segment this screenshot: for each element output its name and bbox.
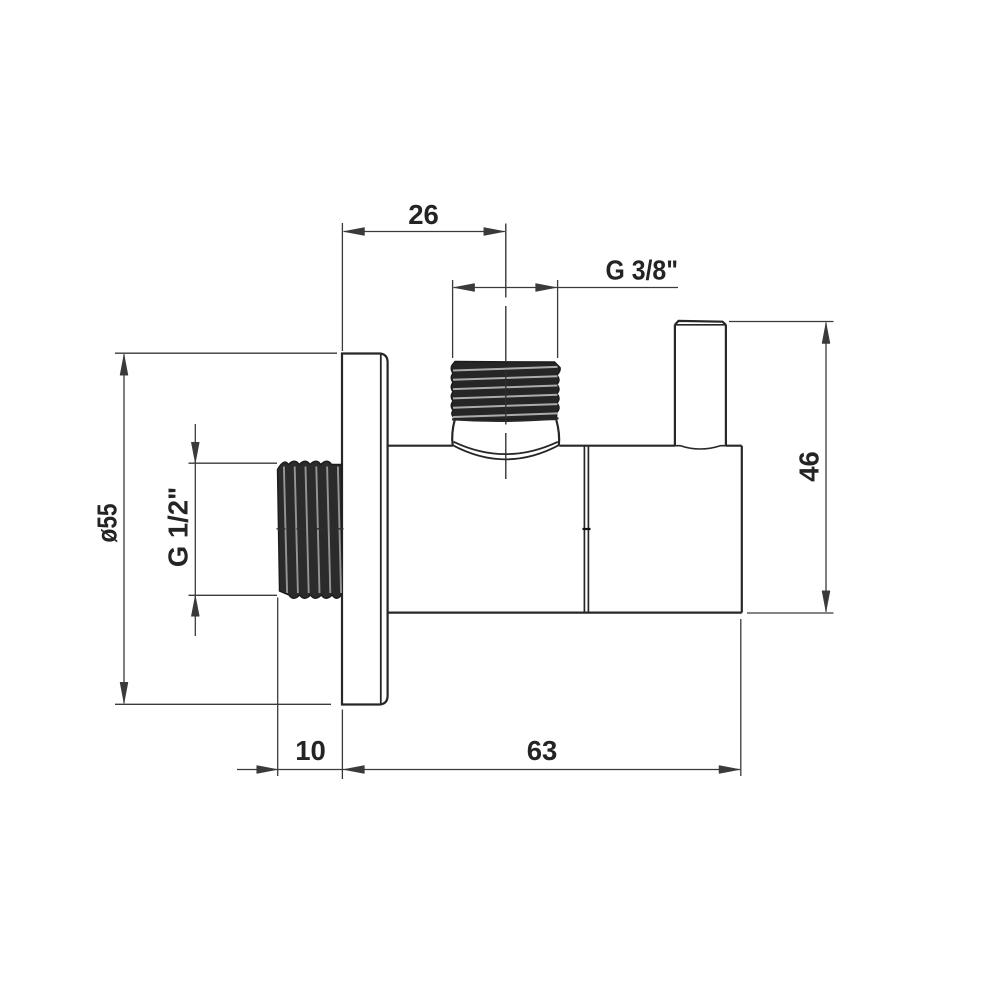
outlet neck flare left: [452, 420, 455, 446]
body joint center tick: [583, 528, 591, 530]
thread G3/8 bottom line: [452, 418, 559, 421]
flange edge highlight line: [380, 354, 382, 704]
horizontal centerline of inlet: [277, 528, 344, 530]
svg-text:G 1/2": G 1/2": [163, 487, 194, 567]
vertical centerline of outlet: [505, 224, 507, 298]
thread G1/2 male (wall inlet): [278, 461, 342, 598]
svg-text:ø55: ø55: [92, 504, 123, 543]
svg-text:46: 46: [794, 451, 825, 482]
valve body outline: [388, 446, 742, 613]
svg-text:G 3/8": G 3/8": [606, 255, 679, 286]
saddle outer arc: [453, 445, 559, 459]
wall flange plate: [342, 354, 388, 705]
saddle inner arc: [454, 442, 558, 454]
svg-text:26: 26: [408, 199, 439, 230]
outlet neck flare right: [556, 420, 559, 446]
svg-text:63: 63: [527, 735, 558, 766]
body joint double line: [584, 446, 588, 613]
dimension 46: [729, 322, 834, 614]
svg-text:10: 10: [295, 735, 326, 766]
thread G3/8 male (top outlet): [451, 362, 560, 420]
dimension G 1/2 inch: [163, 424, 278, 636]
handle stem: [675, 321, 726, 449]
dimension diameter 55: [92, 353, 338, 704]
dimension 26: [342, 199, 504, 351]
dimension G 3/8 inch: [453, 255, 678, 359]
dimension 10 and 63: [237, 598, 741, 780]
